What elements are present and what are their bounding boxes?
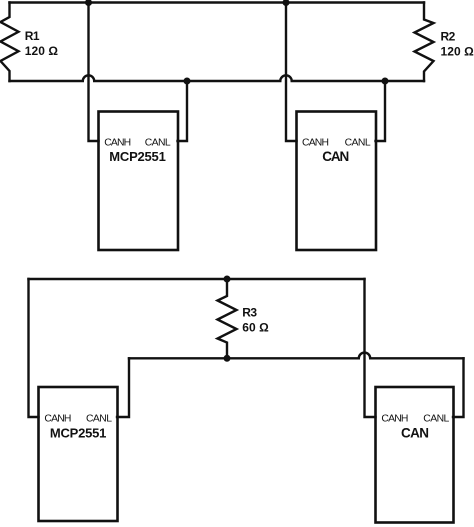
wire CANH tap to CAN node (vertical at x=286) [286, 3, 297, 142]
junction node R3 top [224, 276, 231, 283]
svg-text:CANH: CANH [302, 138, 329, 149]
resistor R3 [218, 279, 237, 358]
junction node on CANL at MCP2551 tap [184, 78, 191, 85]
svg-text:CANH: CANH [104, 138, 131, 149]
svg-text:CANL: CANL [423, 413, 449, 424]
wire CANL to bottom MCP2551 (vertical at x=129) [117, 358, 129, 417]
wire CANH to bottom MCP2551 (left vertical at x=28.5) [29, 279, 39, 417]
svg-text:120 Ω: 120 Ω [441, 44, 474, 58]
svg-text:CAN: CAN [322, 149, 349, 164]
wire CANL bus top circuit (with hops at x=88.5 and x=286) [10, 75, 425, 81]
svg-text:CANH: CANH [381, 413, 408, 424]
wire CANL tap to MCP2551 (vertical at x=187) [178, 81, 188, 141]
transceiver MCP2551 box (top) [99, 112, 179, 251]
resistor R1 [1, 3, 19, 82]
transceiver MCP2551 box (bottom) [39, 387, 118, 521]
wire CANH bus top circuit [10, 1, 425, 3]
svg-text:MCP2551: MCP2551 [50, 426, 107, 441]
wire CANL bus bottom circuit (with hop at x=364.5) [129, 353, 464, 359]
wire CANH bus bottom circuit [29, 278, 365, 280]
wire CANH to bottom CAN (vertical at x=364.5, crosses CANL with hop) [365, 279, 376, 417]
svg-text:CAN: CAN [401, 426, 429, 441]
transceiver CAN box (top) [297, 112, 377, 251]
resistor R2 [415, 3, 434, 82]
junction node on CANH at MCP2551 tap [85, 0, 92, 6]
wire CANH tap to MCP2551 (vertical at x=88.5, crosses CANL with hop) [89, 3, 99, 142]
wire CANL to bottom CAN (vertical at x=463.5) [453, 358, 464, 417]
junction node on CANH at CAN tap [283, 0, 290, 6]
svg-text:MCP2551: MCP2551 [109, 149, 166, 164]
svg-text:120 Ω: 120 Ω [25, 44, 59, 58]
svg-text:CANL: CANL [145, 138, 171, 149]
svg-text:R3: R3 [242, 306, 257, 320]
wire CANL tap to CAN node (vertical at x=385) [376, 81, 386, 141]
svg-text:CANL: CANL [345, 138, 371, 149]
svg-text:R1: R1 [25, 29, 40, 43]
junction node on CANL at CAN tap [382, 78, 389, 85]
svg-text:CANL: CANL [86, 413, 112, 424]
junction node R3 bottom [224, 355, 231, 362]
svg-text:60 Ω: 60 Ω [242, 320, 269, 334]
transceiver CAN box (bottom) [376, 387, 454, 523]
svg-text:R2: R2 [441, 30, 456, 44]
svg-text:CANH: CANH [44, 413, 71, 424]
